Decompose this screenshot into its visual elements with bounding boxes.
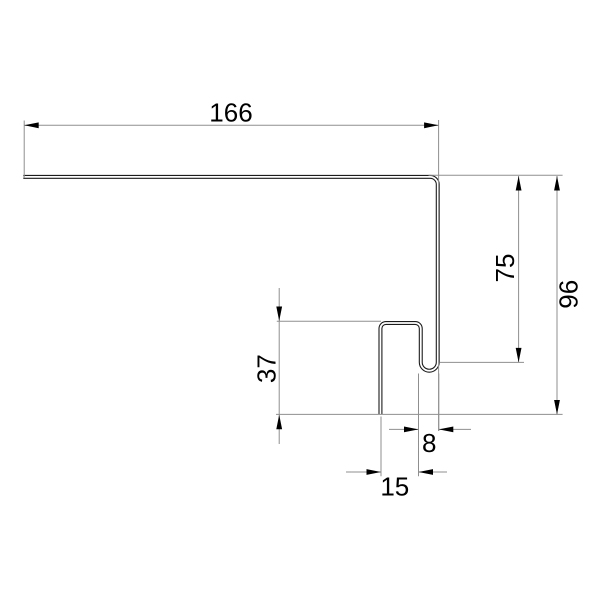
166 left arrow — [24, 122, 39, 128]
extension line x=418.5 (15 right / 8 left) — [418, 374, 420, 477]
8 left arrow (outside, pointing right) — [404, 427, 419, 433]
166 right arrow — [424, 122, 439, 128]
svg-text:8: 8 — [422, 428, 436, 458]
extension line at y=362.4 (75 bottom) — [439, 361, 524, 363]
15 left arrow (outside, pointing right) — [367, 469, 382, 475]
15 right arrow (outside, pointing left) — [419, 469, 434, 475]
dim 15 line — [346, 471, 381, 473]
dim 8 line — [389, 428, 419, 430]
dim 166 extension left — [23, 121, 25, 179]
dim 75 line — [518, 176, 520, 362]
svg-text:75: 75 — [490, 254, 520, 283]
37 top arrow (outside, pointing down) — [276, 307, 282, 322]
dim 37 extension top — [277, 320, 381, 322]
extension line x=438.8 (8 right) — [438, 374, 440, 432]
dim 96 line — [556, 176, 558, 415]
dim 166 line — [24, 124, 438, 126]
8 right arrow (outside, pointing left) — [439, 427, 454, 433]
bottom extension line at y=414.4 — [276, 413, 563, 415]
75 top arrow — [516, 176, 522, 191]
arrows — [24, 122, 560, 475]
75 bottom arrow — [516, 348, 522, 363]
dim 166 extension right — [438, 120, 440, 431]
96 bottom arrow — [554, 400, 560, 415]
top extension line at y=175.2 — [429, 174, 563, 176]
svg-text:15: 15 — [380, 471, 409, 501]
extension and dimension lines — [24, 120, 562, 476]
svg-text:166: 166 — [209, 97, 252, 127]
extension line x=381 (15 left) — [380, 417, 382, 477]
dim 37 line — [278, 288, 280, 444]
profile outline (sheet metal) — [23, 177, 437, 415]
svg-text:37: 37 — [251, 354, 281, 383]
96 top arrow — [554, 176, 560, 191]
dimension texts — [209, 97, 583, 501]
svg-text:96: 96 — [553, 280, 583, 309]
37 bottom arrow (outside, pointing up) — [276, 415, 282, 430]
